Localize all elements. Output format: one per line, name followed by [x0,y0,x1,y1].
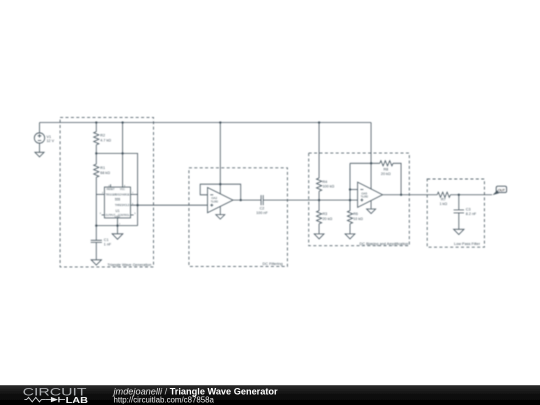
svg-text:THRESHOLD: THRESHOLD [115,204,130,207]
svg-text:12 V: 12 V [47,139,55,143]
svg-text:20 kΩ: 20 kΩ [381,172,391,176]
node R7/C3 [458,194,460,196]
svg-text:R7: R7 [441,198,446,202]
svg-text:R8: R8 [383,168,388,172]
svg-text:C3: C3 [466,208,471,212]
wire R2 top lead [95,123,97,132]
wire THRESHOLD to OA2 plus [131,204,208,206]
node rail/R2 [95,121,97,123]
svg-text:Triangle Wave Generation: Triangle Wave Generation [107,263,151,267]
wire VCC drop [122,123,124,188]
junction dots [95,121,460,226]
svg-text:100 kΩ: 100 kΩ [323,185,335,189]
svg-text:5: 5 [134,213,136,215]
wire OA3 V+ [370,123,372,190]
svg-text:DC Biasing and Amplification: DC Biasing and Amplification [360,242,409,246]
op-amp texts [211,191,369,203]
wire GND pin [117,218,119,226]
wire OA3 minus stub [350,189,358,191]
node OA3 minus [349,188,351,190]
ground C1 [91,260,101,265]
wire R6 bottom lead [349,224,351,234]
svg-text:R1: R1 [100,166,105,170]
output flag OUT [492,186,506,195]
chip texts [115,198,121,214]
box DC Filtering [189,168,288,267]
ground OA3 [367,209,376,214]
ground C3 [454,229,464,234]
FOOTER [0,385,540,405]
node gnd net [95,224,97,226]
resistor R3 [317,211,322,224]
svg-text:68 kΩ: 68 kΩ [100,171,110,175]
resistor R4 [317,178,322,191]
wire feedback vertical to R6 [349,163,351,210]
svg-text:100 nF: 100 nF [256,211,268,215]
node rail/R4 [318,121,320,123]
wire C3 top lead [458,195,460,210]
svg-text:10 kΩ: 10 kΩ [353,217,363,221]
svg-text:http://circuitlab.com/c87858a: http://circuitlab.com/c87858a [114,395,215,404]
section labels [107,242,480,267]
wire feedback top left [350,162,380,164]
node R4/R3 signal [318,199,320,201]
pin RESET stub [110,184,112,187]
op-amp OA2 [208,188,234,213]
wire R3 top lead [318,200,320,211]
svg-text:C1: C1 [104,238,109,242]
svg-text:VCC: VCC [120,188,125,191]
box Low Pass Filter [427,179,484,247]
box Triangle Wave Generation [60,117,153,267]
capacitor C2 [261,195,263,205]
node R2/R1 [95,152,97,154]
wire GND stem [117,226,119,234]
op-amp OA5 [358,182,383,207]
wire C1 bottom [95,242,97,259]
wire R4 bottom lead [318,191,320,200]
ground R6 [345,234,355,239]
svg-text:OA2: OA2 [211,196,217,200]
wire R2 bottom lead [95,145,97,154]
logo diode [46,399,65,401]
node gnd pin [116,224,118,226]
node OA3 plus crossing [349,199,351,201]
wire C3 bottom lead [458,213,460,229]
wire OA3 V- [370,201,372,209]
resistor R1 [94,164,99,177]
svg-text:1 kΩ: 1 kΩ [439,202,447,206]
svg-text:RESET: RESET [107,188,116,191]
node OA2 output [240,199,242,201]
svg-text:Low Pass Filter: Low Pass Filter [454,242,481,246]
ground R3 [314,234,324,239]
svg-text:DISCHARGE: DISCHARGE [115,193,130,196]
wire V1 top to rail [39,123,41,133]
wire feedback right to output [393,163,401,194]
wire R1 top lead [95,153,97,164]
wire OA3 output to R7 [383,194,438,196]
svg-text:555: 555 [115,198,121,202]
node OA3 feedback/V+ [370,162,372,164]
component labels [47,134,478,247]
wire R3 bottom lead [318,224,320,234]
wire TRIGGER [96,193,104,195]
wire R1 bottom to C1 [95,177,97,240]
wire R7 to out [450,194,492,196]
node VCC crossing [121,152,123,154]
svg-text:R4: R4 [323,180,328,184]
wire V1 bottom [39,143,41,152]
wire R4 top lead [318,123,320,179]
box DC Biasing and Amplification [309,153,410,246]
wire OA2 output [233,199,261,201]
wire 12V rail [40,122,372,124]
svg-text:4.7 kΩ: 4.7 kΩ [100,138,111,142]
node rail/OA2 V+ [219,121,221,123]
svg-text:DC Filtering: DC Filtering [263,262,283,266]
svg-text:GND: GND [115,215,121,218]
svg-text:TL082: TL082 [211,200,219,204]
node OA3 output [400,194,402,196]
wire DISCHARGE [131,193,138,195]
resistor R7 [437,192,450,197]
svg-text:R6: R6 [353,212,358,216]
svg-text:3: 3 [100,213,102,215]
wire R2/R1 junction to discharge drop [96,153,137,225]
svg-text:OUT: OUT [498,188,505,192]
capacitor C3 [454,210,464,213]
svg-text:R2: R2 [100,134,105,138]
wire OA2 feedback loop [200,184,241,200]
svg-text:LAB: LAB [66,395,88,405]
svg-text:1 nF: 1 nF [104,243,112,247]
pin CONTROL stub [131,214,134,216]
resistor R8 [380,161,393,166]
pin OUTPUT stub [102,214,105,216]
resistor R2 [94,132,99,145]
ground V1 [35,152,44,157]
wire C2 to OA3 plus [263,199,357,201]
node threshold [136,204,138,206]
svg-text:U1: U1 [115,209,119,213]
ground OA2 [216,215,225,220]
wire OA2 V- [219,207,221,215]
svg-text:8.2 nF: 8.2 nF [466,212,477,216]
wire OA2 V+ [219,123,221,194]
node rail/VCC [121,121,123,123]
555 chip U1 body [104,187,130,218]
voltage source V1 [34,133,44,143]
svg-text:R3: R3 [323,212,328,216]
resistor R6 [347,211,352,224]
svg-text:20 kΩ: 20 kΩ [323,217,333,221]
logo resistor squiggle [24,397,45,402]
ground 555 [112,234,123,240]
node OA2 feedback/V+ [219,183,221,185]
svg-text:TL082: TL082 [361,195,369,199]
capacitor C1 [91,240,102,242]
svg-text:OA5: OA5 [361,191,367,195]
wire GND net horizontal [96,225,137,227]
